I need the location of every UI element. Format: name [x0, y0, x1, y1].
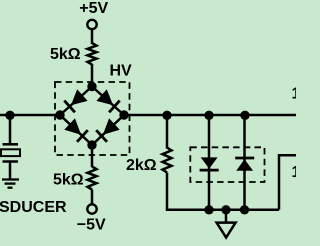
wire: left signal wire into bridge: [0, 114, 60, 117]
transducer crystal bottom plate: [3, 160, 19, 163]
svg-text:5kΩ: 5kΩ: [53, 171, 84, 188]
resistor 5k top: [88, 43, 97, 65]
diode bridge bottom-right: [96, 118, 120, 142]
node bus at diode 1: [204, 205, 213, 214]
wire: ground stem: [225, 210, 228, 222]
node main wire at diode 1: [204, 111, 213, 120]
wire: +5V terminal to resistor: [91, 29, 94, 44]
ground chassis triangle: [217, 223, 236, 238]
node bus at diode 2: [240, 205, 249, 214]
wire: bridge bottom node to resistor: [91, 145, 94, 167]
wire: bridge edge top-left: [60, 87, 92, 116]
transducer crystal body: [1, 149, 20, 156]
wire: node to transducer: [9, 115, 12, 144]
wire: bridge edge top-right: [92, 87, 124, 116]
wire: clamp diode 1 vertical: [208, 115, 211, 210]
svg-text:5kΩ: 5kΩ: [50, 46, 81, 63]
terminal -5V: [87, 204, 96, 213]
node main wire at 2k: [162, 111, 171, 120]
transducer crystal top plate: [3, 143, 19, 146]
node bus at ground stem: [221, 205, 230, 214]
svg-text:+5V: +5V: [79, 0, 108, 17]
wire: transducer to ground: [9, 162, 12, 180]
wire: 2k resistor bottom lead to ground bus: [167, 173, 279, 210]
diode clamp up: [235, 158, 254, 171]
node main wire at diode 2: [240, 111, 249, 120]
dashed box clamp diodes: [190, 147, 264, 182]
diode clamp down: [200, 157, 219, 170]
svg-text:−5V: −5V: [77, 217, 106, 234]
svg-text:2kΩ: 2kΩ: [126, 157, 157, 174]
node signal at transducer: [5, 111, 14, 120]
resistor 2k: [163, 148, 172, 173]
wire: right signal wire from bridge to right edge: [124, 114, 296, 117]
dashed box HV bridge: [55, 82, 130, 155]
wire: clamp diode 2 vertical: [243, 115, 246, 210]
resistor 5k bottom: [88, 167, 97, 190]
node bridge right: [119, 110, 128, 119]
diode bridge bottom-left: [64, 118, 88, 142]
svg-text:SDUCER: SDUCER: [0, 199, 67, 216]
wire: bridge edge left-bottom: [60, 115, 92, 145]
node bridge top: [87, 82, 96, 91]
wire: bridge edge right-bottom: [92, 115, 124, 145]
ground earth transducer: [2, 180, 19, 188]
wire: output right vertical and to edge: [279, 155, 296, 210]
terminal +5V: [87, 20, 96, 29]
wire: resistor to bridge top node: [91, 64, 94, 87]
node bridge bottom: [87, 140, 96, 149]
wire: resistor to -5V terminal: [91, 190, 94, 205]
diode bridge top-left: [64, 89, 87, 112]
svg-text:1: 1: [292, 164, 297, 181]
node bridge left: [55, 110, 64, 119]
diode bridge top-right: [96, 89, 119, 112]
svg-text:HV: HV: [110, 63, 133, 80]
wire: 2k resistor top lead: [166, 115, 169, 149]
svg-text:1: 1: [292, 86, 297, 103]
